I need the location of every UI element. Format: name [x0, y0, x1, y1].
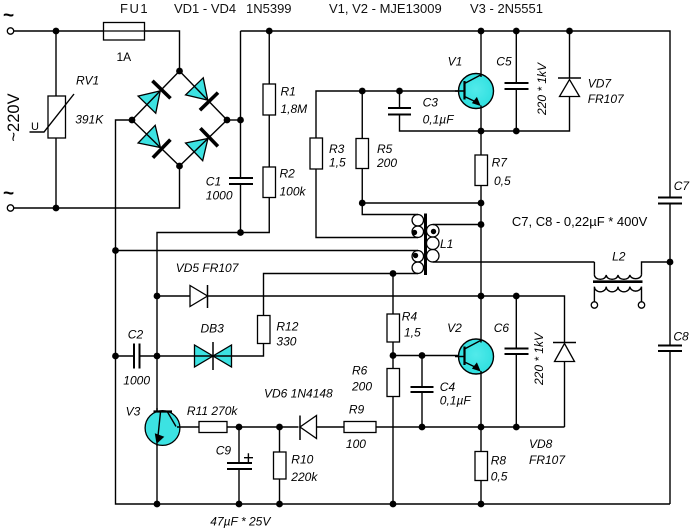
svg-text:~: ~ [3, 184, 14, 205]
svg-text:R6: R6 [352, 364, 368, 378]
svg-text:391K: 391K [75, 113, 104, 127]
svg-text:C4: C4 [440, 380, 456, 394]
svg-text:DB3: DB3 [201, 322, 225, 336]
svg-text:~: ~ [3, 6, 14, 27]
svg-text:0,1µF: 0,1µF [423, 113, 455, 127]
svg-text:R5: R5 [377, 142, 393, 156]
svg-text:R7: R7 [492, 156, 509, 170]
svg-text:C3: C3 [423, 96, 439, 110]
svg-text:220 * 1kV: 220 * 1kV [532, 332, 546, 386]
svg-text:R10: R10 [291, 453, 313, 467]
svg-text:200: 200 [376, 156, 397, 170]
svg-text:C9: C9 [216, 444, 232, 458]
svg-text:47µF * 25V: 47µF * 25V [210, 515, 271, 529]
svg-text:L1: L1 [440, 237, 453, 251]
svg-text:200: 200 [351, 380, 372, 394]
svg-text:0,5: 0,5 [494, 174, 511, 188]
svg-text:220 * 1kV: 220 * 1kV [535, 62, 549, 116]
svg-text:R3: R3 [329, 142, 345, 156]
svg-text:1,5: 1,5 [329, 156, 346, 170]
svg-text:1A: 1A [117, 50, 132, 64]
svg-text:C8: C8 [673, 330, 689, 344]
svg-text:C5: C5 [496, 55, 512, 69]
svg-text:R12: R12 [276, 320, 298, 334]
svg-text:100k: 100k [280, 185, 307, 199]
svg-text:220k: 220k [290, 470, 318, 484]
svg-text:RV1: RV1 [76, 74, 99, 88]
svg-text:L2: L2 [612, 250, 626, 264]
svg-text:V1: V1 [448, 55, 463, 69]
svg-text:~220V: ~220V [5, 93, 23, 141]
svg-text:R1: R1 [281, 85, 296, 99]
svg-text:FU1: FU1 [120, 1, 149, 16]
svg-text:330: 330 [276, 335, 296, 349]
svg-text:VD7: VD7 [588, 77, 613, 91]
svg-text:0,1µF: 0,1µF [440, 394, 472, 408]
svg-text:1000: 1000 [206, 189, 233, 203]
svg-text:V2: V2 [447, 321, 462, 335]
svg-text:0,5: 0,5 [491, 470, 508, 484]
svg-text:R2: R2 [280, 167, 296, 181]
svg-text:V3: V3 [126, 405, 141, 419]
svg-text:FR107: FR107 [529, 453, 566, 467]
svg-text:1,8M: 1,8M [281, 102, 308, 116]
svg-text:R4: R4 [402, 310, 418, 324]
svg-text:100: 100 [346, 437, 366, 451]
svg-text:R8: R8 [491, 454, 507, 468]
svg-text:C2: C2 [128, 328, 144, 342]
svg-text:U: U [31, 121, 39, 133]
svg-text:VD5 FR107: VD5 FR107 [176, 261, 240, 275]
svg-text:C7, C8 - 0,22µF * 400V: C7, C8 - 0,22µF * 400V [512, 214, 648, 229]
svg-text:V3 - 2N5551: V3 - 2N5551 [470, 1, 543, 16]
svg-text:C6: C6 [494, 321, 510, 335]
svg-text:R11 270k: R11 270k [187, 404, 238, 418]
svg-text:1,5: 1,5 [404, 326, 421, 340]
svg-text:VD1 - VD4: VD1 - VD4 [174, 1, 236, 16]
svg-text:VD6 1N4148: VD6 1N4148 [264, 387, 333, 401]
svg-text:1000: 1000 [123, 374, 150, 388]
svg-text:R9: R9 [349, 403, 365, 417]
svg-text:V1, V2 - MJE13009: V1, V2 - MJE13009 [329, 1, 442, 16]
svg-text:C7: C7 [674, 179, 691, 193]
svg-text:1N5399: 1N5399 [246, 1, 292, 16]
svg-text:VD8: VD8 [529, 437, 553, 451]
svg-text:C1: C1 [206, 175, 221, 189]
svg-text:FR107: FR107 [588, 92, 625, 106]
